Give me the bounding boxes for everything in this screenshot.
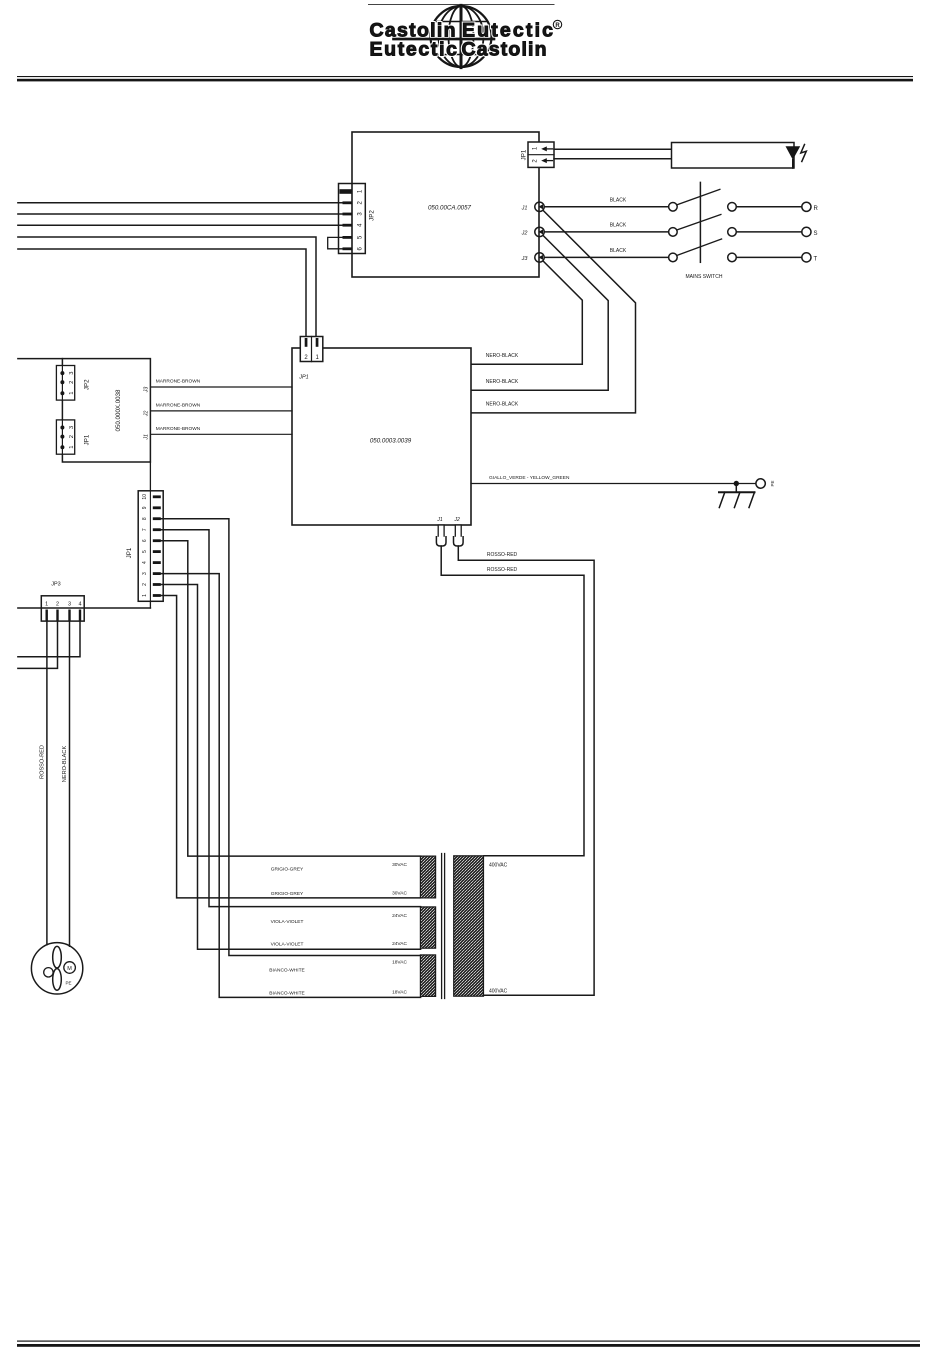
wire J1-U3 to U2 MARRONE-BROWN (150, 433, 292, 435)
svg-text:GRIGIO-GREY: GRIGIO-GREY (271, 891, 304, 897)
wire into JP2.2 (U1) (18, 202, 342, 204)
svg-text:7: 7 (142, 528, 148, 531)
svg-text:6: 6 (142, 539, 148, 542)
svg-text:3: 3 (68, 601, 71, 607)
wire J1 BLACK to switch (544, 206, 668, 208)
svg-text:JP2: JP2 (84, 379, 91, 390)
svg-text:1: 1 (45, 601, 48, 607)
svg-text:PE: PE (770, 480, 775, 486)
svg-text:1: 1 (69, 392, 75, 395)
wire U1.J3 to U2 NERO-BLACK (471, 261, 582, 364)
svg-text:18VAC: 18VAC (392, 990, 407, 996)
wire into JP2.3 (U1) (18, 213, 342, 215)
svg-text:18VAC: 18VAC (392, 960, 407, 966)
transformer T1 secondary winding C (420, 955, 435, 997)
svg-text:4: 4 (78, 601, 81, 607)
wire U1.J1 to U2 NERO-BLACK (471, 210, 636, 413)
svg-text:J1: J1 (521, 206, 528, 212)
LED lamp assembly (672, 143, 807, 169)
svg-text:VIOLA-VIOLET: VIOLA-VIOLET (271, 919, 304, 925)
svg-text:3: 3 (69, 426, 75, 429)
transformer T1 secondary winding A (420, 856, 435, 898)
fan motor M1 (31, 943, 82, 994)
svg-text:J2: J2 (143, 411, 149, 418)
svg-text:10: 10 (142, 494, 148, 500)
PCB U3 050.000X.0038 (18, 358, 63, 360)
svg-text:VIOLA-VIOLET: VIOLA-VIOLET (271, 942, 304, 948)
terminal J3 (U1) (521, 253, 545, 262)
transformer T1 secondary winding B (420, 907, 435, 948)
svg-text:JP1: JP1 (126, 547, 133, 558)
wire bus into JP3 (18, 607, 151, 609)
svg-text:MARRONE-BROWN: MARRONE-BROWN (156, 379, 201, 385)
wire JP1.8 to winding C1 (161, 519, 421, 956)
svg-text:NERO-BLACK: NERO-BLACK (62, 746, 68, 783)
svg-text:JP1: JP1 (84, 434, 91, 445)
svg-text:400VAC: 400VAC (489, 988, 508, 994)
wire U1.J2 to U2 NERO-BLACK (471, 235, 608, 390)
svg-text:30VAC: 30VAC (392, 890, 407, 896)
svg-text:BLACK: BLACK (610, 223, 627, 229)
wire JP1 connector down to JP3 bus (149, 601, 151, 608)
connector JP2 (U3) (56, 366, 75, 401)
svg-text:MAINS SWITCH: MAINS SWITCH (686, 274, 723, 280)
svg-text:JP1: JP1 (521, 149, 528, 160)
svg-text:ROSSO-RED: ROSSO-RED (487, 552, 518, 558)
svg-text:ROSSO-RED: ROSSO-RED (487, 567, 518, 573)
wire U2.J1 ROSSO-RED to transformer primary (441, 546, 584, 856)
svg-text:R: R (814, 206, 819, 212)
logo registered trademark (553, 20, 561, 29)
svg-text:BIANCO-WHITE: BIANCO-WHITE (269, 991, 304, 997)
svg-text:J2: J2 (454, 517, 461, 523)
svg-text:400VAC: 400VAC (489, 863, 508, 869)
svg-text:BLACK: BLACK (610, 198, 627, 204)
svg-text:T: T (814, 257, 818, 263)
wire U2.J2 ROSSO-RED to transformer primary (458, 546, 594, 995)
node PE circle (756, 479, 765, 488)
svg-text:24VAC: 24VAC (392, 913, 407, 919)
svg-text:R: R (555, 23, 560, 29)
JP1 10-pin numbers (142, 494, 148, 597)
svg-text:J1: J1 (436, 517, 443, 523)
wire into JP2.4 (U1) (18, 224, 342, 226)
connector JP1 10-pin (138, 491, 163, 602)
wire JP1.6 to winding A1 (161, 541, 421, 856)
wire J2 BLACK to switch (544, 231, 668, 233)
svg-text:2: 2 (69, 381, 75, 384)
PCB U2 050.0003.0039 (292, 348, 471, 525)
svg-text:1: 1 (142, 594, 148, 597)
connector JP1 (U1, to LED) (528, 142, 554, 167)
svg-text:MARRONE-BROWN: MARRONE-BROWN (156, 402, 201, 408)
transformer T1 core (441, 854, 443, 999)
svg-text:NERO-BLACK: NERO-BLACK (486, 353, 519, 359)
svg-text:3: 3 (142, 572, 148, 575)
svg-text:Castolin: Castolin (462, 39, 547, 61)
wire to JP1.2 (U2) (18, 249, 306, 338)
header double rule (17, 76, 913, 77)
connector JP1 (U2) (300, 337, 323, 362)
wire JP1.3 to winding C2 (161, 574, 421, 998)
svg-text:NERO-BLACK: NERO-BLACK (486, 402, 519, 408)
svg-text:J1: J1 (143, 434, 149, 441)
connector JP3 (41, 596, 84, 621)
svg-text:BIANCO-WHITE: BIANCO-WHITE (269, 968, 304, 974)
logo top thin rule (369, 4, 555, 6)
svg-text:JP2: JP2 (369, 210, 376, 221)
wire JP3.4 to left (18, 621, 80, 657)
svg-text:2: 2 (69, 435, 75, 438)
wire J2-U3 to U2 MARRONE-BROWN (150, 410, 292, 412)
terminal J1 (U1) (521, 202, 545, 211)
wire J3 BLACK to switch (544, 256, 668, 258)
svg-text:NERO-BLACK: NERO-BLACK (486, 379, 519, 385)
wire JP3.1 ROSSO-RED to fan (46, 621, 48, 945)
PCB U1 050.00CA.0057 (352, 132, 539, 277)
terminal R (802, 202, 811, 211)
transformer T1 primary winding (454, 856, 484, 996)
logo wordmark Castolin Eutectic / Eutectic Castolin (370, 19, 554, 60)
svg-text:M: M (67, 966, 72, 972)
wire JP1.7 to winding B1 (161, 530, 421, 907)
svg-text:24VAC: 24VAC (392, 941, 407, 947)
svg-text:8: 8 (142, 517, 148, 520)
wire J3-U3 to U2 MARRONE-BROWN (150, 386, 292, 388)
jumper wire JP2 pins 5-6 (328, 237, 342, 248)
svg-text:2: 2 (56, 601, 59, 607)
svg-text:BLACK: BLACK (610, 248, 627, 254)
logo globe (394, 5, 495, 67)
footer double rule (17, 1341, 920, 1342)
svg-text:JP3: JP3 (51, 582, 60, 588)
svg-text:GIALLO_VERDE - YELLOW_GREEN: GIALLO_VERDE - YELLOW_GREEN (489, 475, 570, 481)
svg-text:2: 2 (142, 583, 148, 586)
svg-text:MARRONE-BROWN: MARRONE-BROWN (156, 426, 201, 432)
mains switch S1 (669, 182, 802, 262)
svg-text:1: 1 (69, 446, 75, 449)
svg-text:PE: PE (65, 981, 71, 986)
svg-text:30VAC: 30VAC (392, 862, 407, 868)
svg-text:J2: J2 (521, 231, 528, 237)
wire JP1.1 to LED (554, 148, 672, 150)
wire JP1.2 to LED (554, 158, 672, 160)
svg-text:4: 4 (142, 561, 148, 564)
wire JP3.3 NERO-BLACK to fan (69, 621, 71, 947)
svg-text:J3: J3 (143, 387, 149, 394)
wire JP1.1 to winding A2 (161, 596, 421, 898)
svg-text:J3: J3 (521, 256, 529, 262)
JP2 pin numbers 1-6 (358, 189, 364, 250)
svg-text:Eutectic: Eutectic (370, 39, 458, 61)
svg-text:050.000X.0038: 050.000X.0038 (115, 389, 122, 432)
wire GIALLO_VERDE-YELLOW_GREEN to PE (471, 483, 756, 485)
terminal T (802, 253, 811, 262)
wire JP1.2 to winding B2 (161, 585, 421, 950)
terminal J2 (U1) (521, 227, 545, 236)
terminal S (802, 227, 811, 236)
wire to JP1.1 (U2) (18, 237, 316, 338)
svg-text:JP1: JP1 (298, 375, 308, 381)
svg-text:S: S (814, 231, 818, 237)
svg-text:9: 9 (142, 506, 148, 509)
svg-text:ROSSO-RED: ROSSO-RED (40, 745, 46, 779)
svg-text:3: 3 (69, 371, 75, 374)
wire JP3.2 to left (18, 621, 58, 669)
connector JP2 (U1) (339, 184, 366, 254)
svg-text:GRIGIO-GREY: GRIGIO-GREY (271, 866, 304, 872)
svg-text:050.00CA.0057: 050.00CA.0057 (428, 205, 472, 212)
terminal J1 (U2) fuse holder (436, 517, 446, 546)
svg-text:5: 5 (142, 550, 148, 553)
ground PE earth symbol (719, 481, 755, 508)
connector JP1 (U3) (56, 420, 75, 454)
svg-text:050.0003.0039: 050.0003.0039 (370, 438, 412, 445)
terminal J2 (U2) fuse holder (454, 517, 464, 546)
wire U3 right edge down to JP1 connector (149, 462, 151, 491)
